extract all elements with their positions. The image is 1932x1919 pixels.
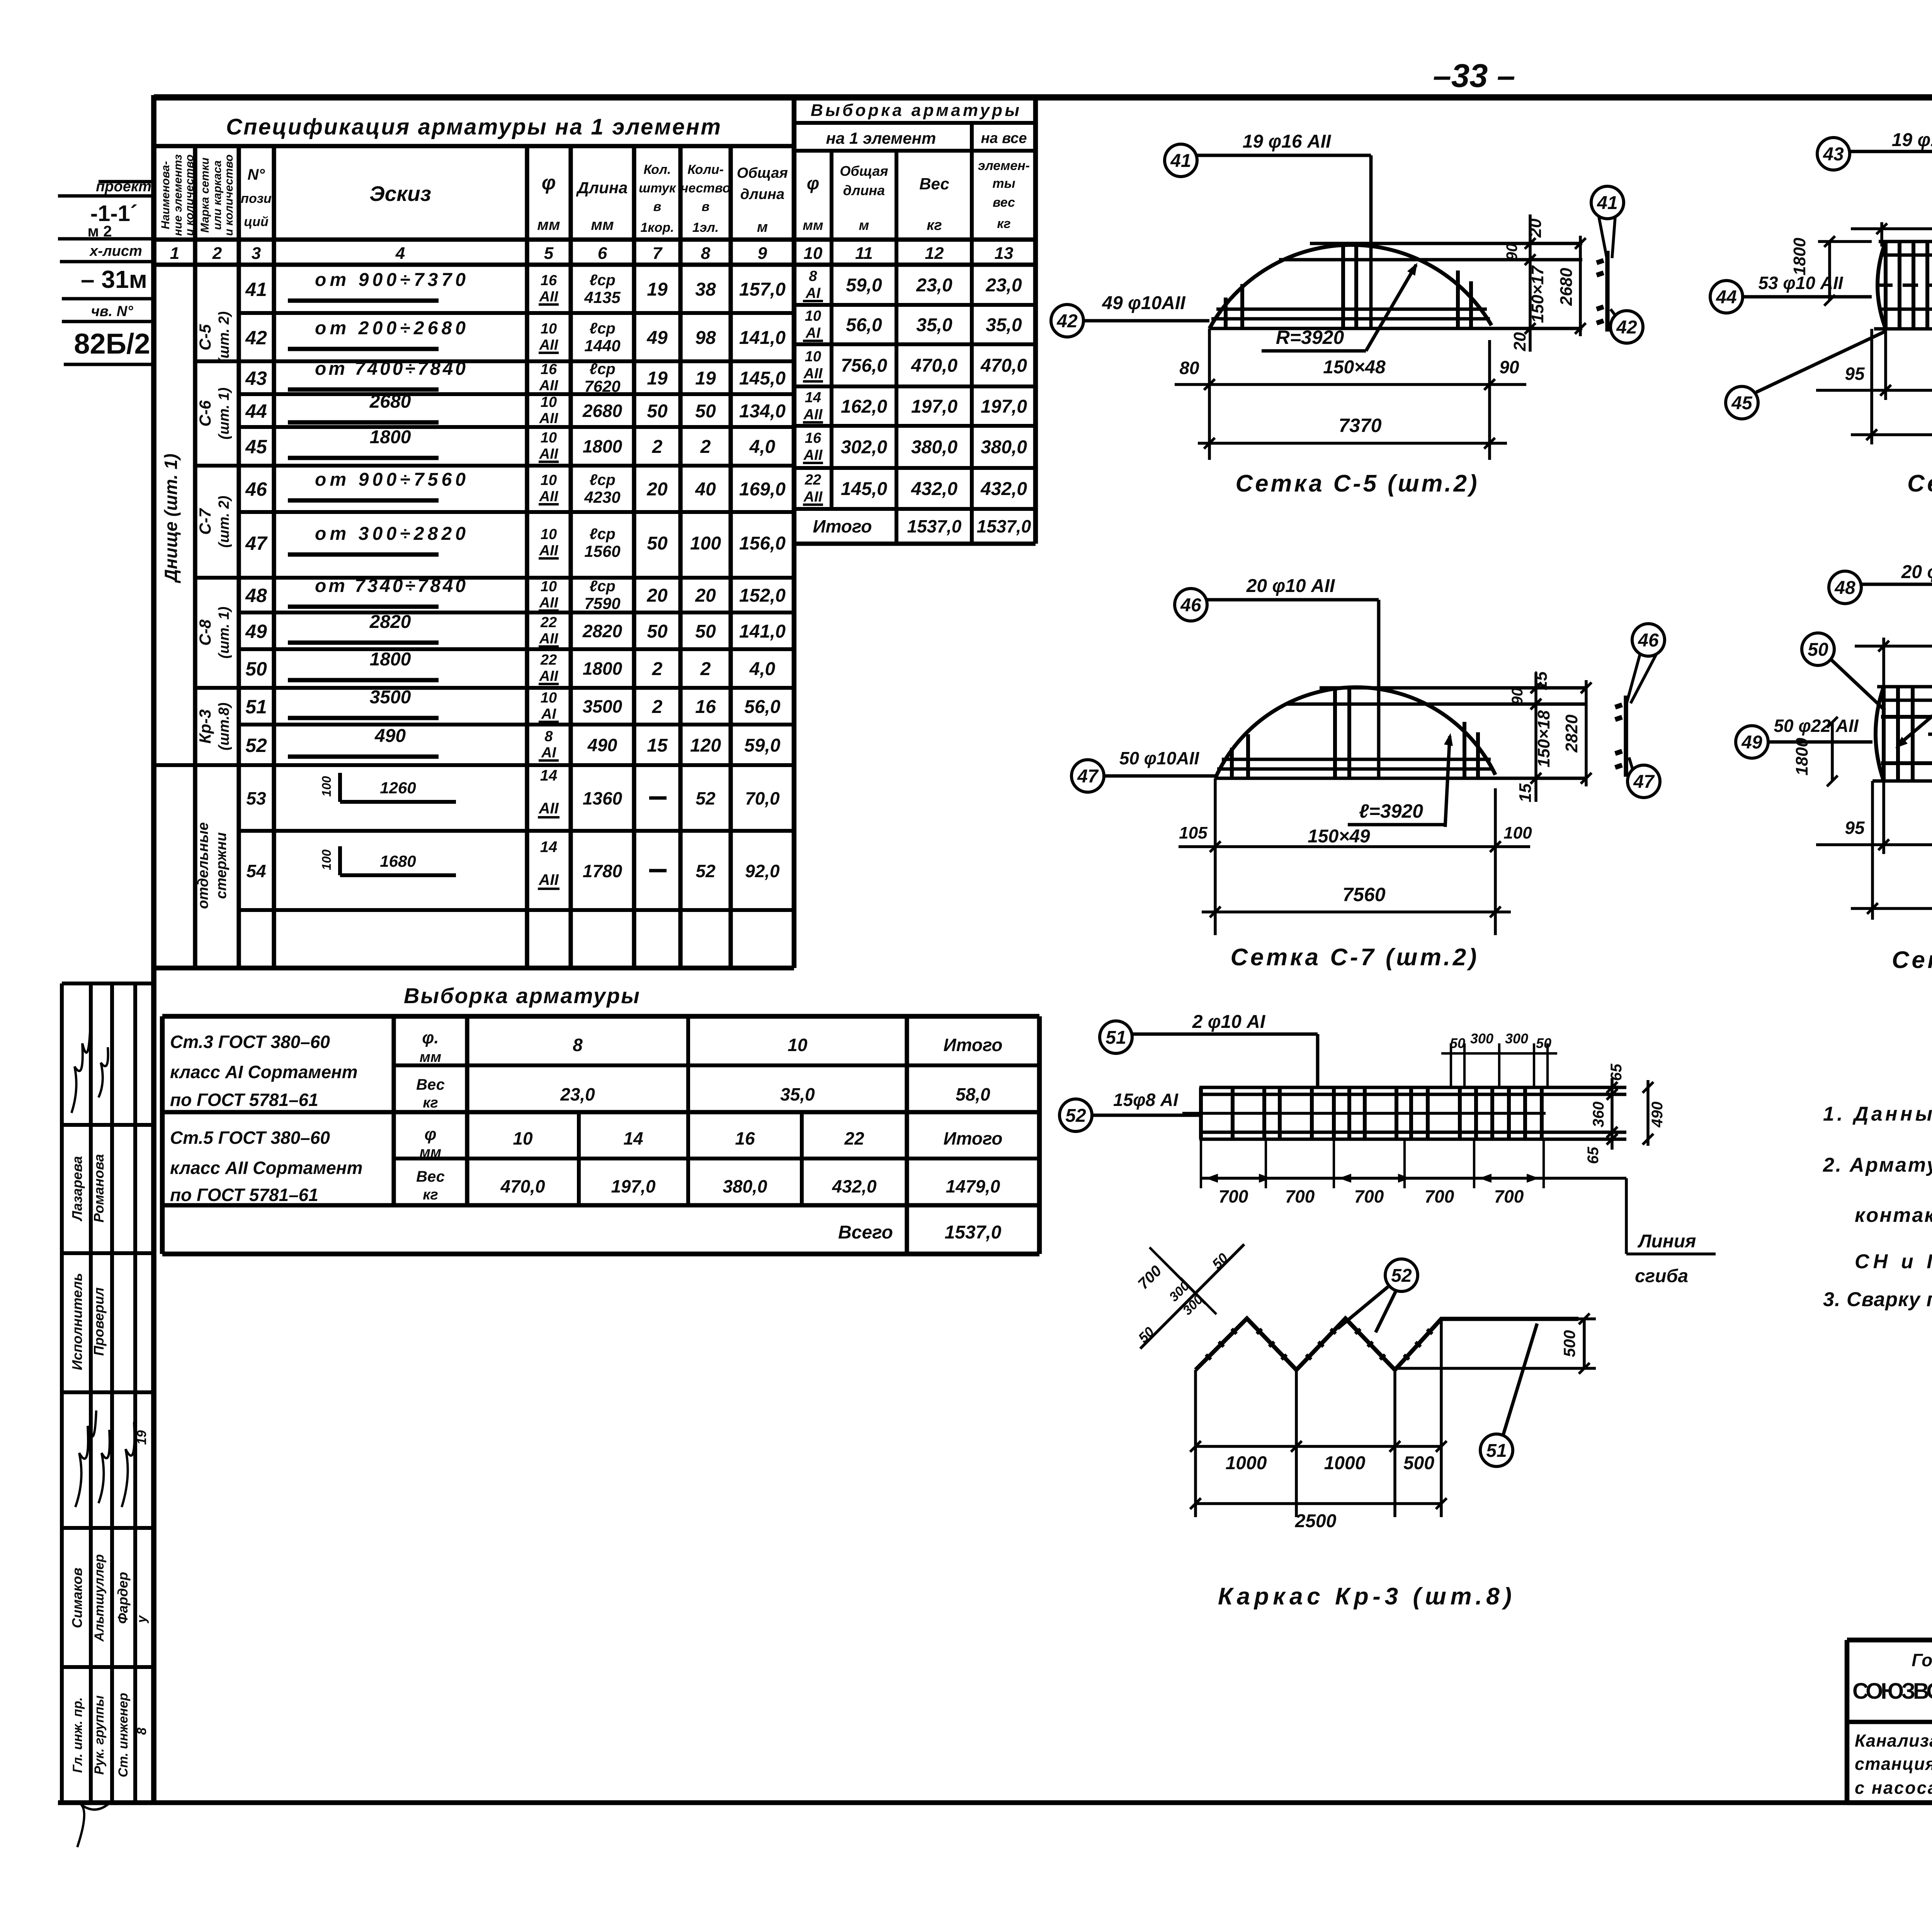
svg-text:7590: 7590 — [584, 594, 620, 612]
svg-text:8: 8 — [701, 244, 711, 263]
svg-text:длина: длина — [740, 186, 784, 202]
svg-text:Романова: Романова — [91, 1154, 107, 1222]
svg-text:380,0: 380,0 — [981, 437, 1027, 458]
svg-text:Днище (шт. 1): Днище (шт. 1) — [161, 454, 181, 584]
C-7 bottom horizontal bars — [1222, 758, 1491, 761]
svg-text:19 φ16 АII: 19 φ16 АII — [1892, 130, 1932, 150]
C-7 callout 47 leader — [1071, 760, 1104, 792]
svg-text:152,0: 152,0 — [739, 585, 786, 606]
svg-text:1479,0: 1479,0 — [946, 1176, 1000, 1196]
svg-text:АII: АII — [803, 447, 823, 463]
svg-text:43: 43 — [1823, 144, 1844, 165]
svg-text:45: 45 — [1731, 393, 1753, 413]
svg-text:R=3920: R=3920 — [1276, 327, 1344, 348]
svg-text:52: 52 — [696, 788, 716, 808]
svg-text:кг: кг — [423, 1095, 438, 1111]
svg-text:С-6: С-6 — [196, 400, 214, 427]
C-7 dimension 7560 — [1202, 910, 1511, 914]
svg-text:15: 15 — [1516, 783, 1535, 802]
svg-text:Спецификация арматуры на 1 э: Спецификация арматуры на 1 элемент — [226, 114, 721, 140]
Kr-3 liniya sgiba leader — [1625, 1178, 1628, 1254]
svg-text:48: 48 — [245, 585, 267, 606]
svg-text:470,0: 470,0 — [911, 356, 957, 376]
svg-text:ℓср: ℓср — [589, 526, 615, 543]
svg-text:1000: 1000 — [1324, 1453, 1366, 1473]
svg-text:АI: АI — [805, 285, 821, 301]
upper-left stamp fragment — [99, 180, 154, 184]
C-7 right dimension chain — [1534, 672, 1537, 802]
svg-text:13: 13 — [995, 244, 1014, 263]
C-8 callout 49 leader — [1736, 726, 1768, 758]
svg-text:432,0: 432,0 — [911, 479, 957, 499]
C-6 callout 45 bottom — [1726, 386, 1758, 419]
svg-text:7: 7 — [653, 244, 663, 263]
svg-text:2: 2 — [652, 659, 663, 679]
svg-text:АI: АI — [541, 706, 556, 722]
svg-text:в: в — [653, 199, 662, 214]
C-5 vertical bars middle cluster — [1341, 244, 1345, 328]
svg-text:20: 20 — [646, 479, 668, 500]
svg-text:Марка сетки: Марка сетки — [199, 158, 211, 233]
svg-text:ℓср: ℓср — [589, 471, 615, 488]
svg-text:АII: АII — [803, 407, 823, 423]
svg-text:141,0: 141,0 — [739, 328, 786, 348]
svg-text:10: 10 — [787, 1035, 808, 1055]
svg-text:Альтшуллер: Альтшуллер — [92, 1554, 107, 1642]
svg-text:Эскиз: Эскиз — [369, 182, 431, 206]
svg-text:380,0: 380,0 — [723, 1176, 767, 1196]
svg-text:90: 90 — [1503, 243, 1520, 261]
svg-text:56,0: 56,0 — [744, 697, 781, 717]
C-6 dimension 7840 — [1851, 433, 1932, 436]
Kr-3 strip horizontal rails — [1199, 1086, 1626, 1089]
svg-text:2680: 2680 — [582, 401, 622, 421]
svg-text:16: 16 — [805, 430, 821, 446]
svg-text:82Б/2: 82Б/2 — [74, 328, 150, 360]
svg-text:1560: 1560 — [584, 542, 620, 560]
svg-text:19: 19 — [647, 368, 668, 389]
Kr-3 zigzag callout 51 — [1480, 1434, 1513, 1466]
svg-text:(шт.8): (шт.8) — [216, 703, 232, 750]
svg-text:Вес: Вес — [919, 175, 949, 193]
svg-text:1. Данный лист смотрите совме: 1. Данный лист смотрите совместно с лист… — [1823, 1103, 1932, 1125]
svg-text:1780: 1780 — [583, 861, 622, 881]
C-5 bottom horizontal bars — [1216, 308, 1487, 311]
title block frame — [1847, 1638, 1932, 1643]
C-5 edge view detail — [1605, 251, 1609, 332]
svg-text:162,0: 162,0 — [841, 396, 887, 417]
svg-text:14: 14 — [805, 390, 821, 406]
svg-text:3500: 3500 — [583, 696, 622, 716]
svg-text:Итого: Итого — [944, 1128, 1003, 1148]
svg-text:52: 52 — [245, 735, 267, 756]
svg-text:Итого: Итого — [813, 516, 872, 536]
C-8 callout 48 leader — [1829, 571, 1861, 604]
svg-text:кг: кг — [423, 1187, 438, 1203]
svg-text:СОЮЗВОДОКАНАЛПРОЕКТ: СОЮЗВОДОКАНАЛПРОЕКТ — [1852, 1679, 1932, 1704]
svg-text:Длина: Длина — [576, 179, 628, 197]
C-8 left dimension 1800 — [1831, 722, 1834, 781]
svg-text:у: у — [134, 1614, 149, 1623]
svg-text:АII: АII — [539, 543, 559, 559]
C-8 callout 50 left — [1802, 633, 1834, 665]
svg-text:–33 –: –33 – — [1433, 58, 1515, 94]
svg-text:15φ8 АI: 15φ8 АI — [1113, 1090, 1179, 1110]
svg-text:59,0: 59,0 — [744, 735, 781, 756]
svg-text:7560: 7560 — [1342, 884, 1385, 905]
svg-text:Проверил: Проверил — [91, 1287, 107, 1356]
C-5 right dimension chain — [1529, 214, 1532, 352]
Kr-3 zigzag polyline — [1196, 1318, 1578, 1370]
Kr-3 zigzag bottom dims 1000 1000 500 2500 — [1196, 1445, 1441, 1448]
svg-text:2500: 2500 — [1295, 1511, 1337, 1531]
svg-text:АI: АI — [541, 745, 556, 761]
svg-text:16: 16 — [695, 697, 716, 717]
svg-text:и количество: и количество — [183, 155, 196, 236]
svg-text:35,0: 35,0 — [986, 315, 1022, 335]
svg-text:3: 3 — [252, 244, 261, 263]
svg-text:3500: 3500 — [370, 687, 411, 708]
svg-text:АII: АII — [539, 446, 559, 462]
svg-text:150×18: 150×18 — [1534, 710, 1553, 767]
svg-text:700: 700 — [1219, 1186, 1248, 1206]
svg-text:2820: 2820 — [1562, 715, 1581, 753]
C-7 bottom dimension line 105 150x49 100 — [1214, 778, 1217, 935]
svg-text:1800: 1800 — [370, 427, 411, 447]
svg-text:С-5: С-5 — [196, 324, 214, 350]
svg-text:44: 44 — [1716, 287, 1736, 308]
svg-text:9: 9 — [758, 244, 767, 263]
svg-text:φ: φ — [542, 172, 556, 194]
svg-text:20: 20 — [646, 585, 668, 606]
signature squiggle below bottom line — [77, 1801, 112, 1847]
svg-text:мм: мм — [591, 216, 614, 233]
svg-text:-1-1´: -1-1´ — [90, 201, 138, 226]
svg-text:станция на 2 агрегата: станция на 2 агрегата — [1855, 1754, 1932, 1774]
svg-text:50: 50 — [695, 401, 716, 422]
svg-text:50: 50 — [647, 533, 668, 554]
svg-text:или каркаса: или каркаса — [211, 160, 224, 230]
svg-text:105: 105 — [1179, 823, 1207, 842]
svg-text:20: 20 — [695, 585, 716, 606]
svg-text:по ГОСТ 5781–61: по ГОСТ 5781–61 — [170, 1185, 318, 1205]
svg-text:Канализационная насосная: Канализационная насосная — [1855, 1731, 1932, 1751]
C-5 top horizontal bars / extension lines — [1310, 242, 1582, 245]
svg-text:23,0: 23,0 — [916, 275, 952, 296]
svg-text:ций: ций — [244, 214, 269, 229]
svg-text:10: 10 — [513, 1128, 533, 1148]
svg-text:47: 47 — [245, 532, 268, 554]
svg-text:48: 48 — [1834, 578, 1855, 598]
svg-text:50: 50 — [647, 401, 668, 422]
svg-text:300: 300 — [1470, 1031, 1493, 1046]
C-5 vertical bars right cluster — [1456, 270, 1460, 328]
svg-text:ℓ=3920: ℓ=3920 — [1359, 800, 1423, 822]
svg-text:16: 16 — [541, 272, 557, 289]
svg-text:432,0: 432,0 — [980, 479, 1027, 499]
svg-text:чество: чество — [681, 181, 731, 196]
svg-text:51: 51 — [1486, 1441, 1507, 1461]
svg-text:8: 8 — [134, 1727, 149, 1735]
svg-text:длина: длина — [843, 182, 885, 198]
svg-text:1эл.: 1эл. — [692, 220, 719, 235]
row53 sketch bent bar 100x1260 — [338, 773, 342, 802]
C-8 vertical bars left cluster — [1882, 687, 1886, 781]
svg-text:φ: φ — [807, 173, 819, 193]
svg-text:Лазарева: Лазарева — [69, 1156, 85, 1222]
svg-text:С-8: С-8 — [196, 619, 214, 646]
svg-text:АII: АII — [803, 489, 823, 505]
svg-text:по ГОСТ 5781–61: по ГОСТ 5781–61 — [170, 1090, 318, 1110]
svg-text:Рук. группы: Рук. группы — [92, 1695, 107, 1774]
svg-text:14: 14 — [540, 767, 558, 784]
strip signatures mid band — [75, 1410, 96, 1507]
svg-text:65: 65 — [1608, 1063, 1625, 1081]
svg-text:43: 43 — [245, 367, 267, 389]
row54 sketch bent bar 100x1680 — [338, 846, 342, 875]
Kr-3 zigzag right vertical dim 500 — [1583, 1319, 1586, 1368]
specification table: Spetsifikatsiya armatury na 1 element — [193, 146, 197, 968]
C-7 vertical bars left cluster — [1230, 748, 1234, 778]
svg-text:56,0: 56,0 — [846, 315, 882, 335]
svg-text:Сетка С-6 (шт.1): Сетка С-6 (шт.1) — [1907, 470, 1932, 497]
C-5 callout 42 leader — [1051, 305, 1083, 337]
svg-text:22: 22 — [804, 472, 821, 488]
svg-text:Каркас Кр-3 (шт.8): Каркас Кр-3 (шт.8) — [1218, 1583, 1512, 1610]
svg-text:500: 500 — [1560, 1330, 1578, 1357]
svg-text:АII: АII — [539, 410, 559, 427]
C-5 arc outline — [1209, 245, 1492, 328]
svg-text:52: 52 — [1065, 1106, 1086, 1126]
svg-text:54: 54 — [246, 861, 266, 881]
svg-text:АII: АII — [539, 289, 559, 305]
svg-text:197,0: 197,0 — [611, 1176, 656, 1196]
svg-text:120: 120 — [690, 735, 721, 756]
svg-text:100: 100 — [1503, 823, 1532, 842]
svg-text:134,0: 134,0 — [739, 401, 786, 422]
svg-text:6: 6 — [598, 244, 607, 263]
svg-text:2: 2 — [700, 437, 711, 457]
C-7 edge view detail — [1624, 696, 1628, 777]
C-7 vertical bars middle cluster — [1333, 689, 1337, 778]
svg-text:95: 95 — [1845, 364, 1865, 384]
svg-text:8: 8 — [544, 728, 553, 745]
C-6 callout 43 — [1817, 138, 1850, 170]
svg-text:1800: 1800 — [370, 649, 411, 670]
svg-text:класс АI Сортамент: класс АI Сортамент — [170, 1062, 358, 1082]
svg-text:ты: ты — [992, 176, 1015, 191]
svg-text:10: 10 — [541, 578, 557, 595]
svg-text:10: 10 — [541, 394, 557, 410]
svg-text:элемен-: элемен- — [978, 158, 1030, 173]
svg-text:80: 80 — [1179, 358, 1199, 378]
svg-text:150×48: 150×48 — [1323, 357, 1386, 378]
svg-text:2820: 2820 — [369, 612, 411, 632]
svg-text:4,0: 4,0 — [749, 437, 776, 457]
svg-text:100: 100 — [320, 849, 333, 870]
svg-text:сгиба: сгиба — [1635, 1266, 1688, 1286]
svg-text:40: 40 — [695, 479, 716, 500]
Kr-3 zigzag left extension and diagonal dims — [1194, 1370, 1197, 1517]
svg-text:1800: 1800 — [1793, 738, 1811, 776]
svg-text:2 φ10 АI: 2 φ10 АI — [1192, 1012, 1266, 1032]
svg-text:22: 22 — [844, 1128, 864, 1148]
svg-text:65: 65 — [1585, 1147, 1602, 1164]
svg-text:49: 49 — [1741, 732, 1762, 753]
svg-text:7620: 7620 — [584, 377, 620, 395]
svg-text:СН и ПII–В1–62 (п.п. 12.35; 1: СН и ПII–В1–62 (п.п. 12.35; 12,36). — [1855, 1250, 1932, 1273]
svg-text:7370: 7370 — [1338, 415, 1381, 436]
svg-text:(шт. 1): (шт. 1) — [216, 388, 232, 440]
svg-text:чв. N°: чв. N° — [91, 303, 134, 320]
svg-text:4: 4 — [395, 244, 405, 263]
svg-text:100: 100 — [320, 776, 333, 797]
svg-text:50: 50 — [245, 658, 267, 680]
svg-text:45: 45 — [245, 436, 267, 458]
bottom border line — [58, 1800, 1932, 1805]
svg-text:1537,0: 1537,0 — [907, 516, 962, 536]
svg-text:19: 19 — [647, 279, 668, 300]
svg-text:700: 700 — [1425, 1186, 1454, 1206]
svg-text:Кол.: Кол. — [644, 162, 671, 177]
svg-text:145,0: 145,0 — [841, 479, 887, 499]
svg-text:10: 10 — [541, 430, 557, 446]
svg-text:5: 5 — [544, 244, 554, 263]
Kr-3 right dimension chain 65 360 65 490 — [1611, 1078, 1614, 1150]
svg-text:отдельные: отдельные — [195, 822, 211, 909]
svg-text:Общая: Общая — [737, 165, 788, 181]
svg-text:3. Сварку производить электро: 3. Сварку производить электродами Э-42 Г… — [1823, 1288, 1932, 1311]
svg-text:157,0: 157,0 — [739, 279, 786, 300]
svg-text:50: 50 — [695, 621, 716, 642]
svg-text:Симаков: Симаков — [69, 1568, 85, 1628]
svg-text:14: 14 — [540, 839, 558, 856]
svg-text:2680: 2680 — [1557, 268, 1576, 306]
svg-text:16: 16 — [541, 361, 557, 378]
vyborka armatury mini table — [794, 121, 1036, 125]
top border line — [154, 94, 1932, 100]
svg-text:150×49: 150×49 — [1308, 826, 1370, 847]
C-6 vertical bars left cluster — [1884, 242, 1888, 329]
C-6 top dimension 7400 — [1851, 227, 1932, 230]
svg-text:47: 47 — [1077, 766, 1099, 787]
Kr-3 bottom dimension chain 700x5 — [1201, 1177, 1626, 1180]
svg-text:19: 19 — [134, 1430, 149, 1445]
svg-text:10: 10 — [541, 321, 557, 337]
svg-text:44: 44 — [245, 400, 267, 422]
svg-text:1360: 1360 — [583, 788, 622, 808]
svg-text:10: 10 — [541, 472, 557, 488]
svg-text:20: 20 — [1510, 332, 1529, 351]
Kr-3 callout 51 top — [1100, 1021, 1132, 1053]
svg-text:46: 46 — [245, 478, 267, 500]
svg-text:φ.: φ. — [422, 1028, 439, 1047]
svg-text:ℓср: ℓср — [589, 578, 615, 595]
svg-text:АII: АII — [539, 595, 559, 611]
C-7 top horizontal bars — [1320, 686, 1586, 690]
svg-text:10: 10 — [541, 526, 557, 543]
svg-text:150×17: 150×17 — [1528, 265, 1547, 323]
svg-text:Вес: Вес — [416, 1168, 445, 1185]
C-5 dimension 7370 — [1198, 442, 1507, 445]
svg-text:90: 90 — [1499, 357, 1519, 377]
svg-text:вес: вес — [993, 195, 1015, 210]
svg-text:8: 8 — [809, 268, 817, 284]
svg-text:302,0: 302,0 — [841, 437, 887, 458]
svg-text:Сетка С-5 (шт.2): Сетка С-5 (шт.2) — [1236, 470, 1477, 497]
C-7 callout 46 leader — [1175, 589, 1207, 621]
svg-text:500: 500 — [1403, 1453, 1434, 1473]
svg-text:156,0: 156,0 — [739, 533, 786, 554]
svg-text:1800: 1800 — [583, 436, 622, 456]
C-7 vertical bars right cluster — [1463, 722, 1466, 778]
svg-text:2: 2 — [212, 244, 222, 263]
svg-text:23,0: 23,0 — [985, 275, 1022, 296]
svg-text:(шт. 1): (шт. 1) — [216, 607, 232, 659]
svg-text:50: 50 — [1536, 1035, 1551, 1051]
svg-text:ℓср: ℓср — [589, 272, 615, 289]
svg-text:47: 47 — [1633, 772, 1655, 792]
svg-text:41: 41 — [1170, 151, 1191, 171]
svg-text:490: 490 — [1649, 1102, 1666, 1128]
svg-text:Коли-: Коли- — [687, 162, 724, 177]
svg-text:4230: 4230 — [584, 488, 620, 506]
strip signatures top band — [71, 1032, 90, 1113]
svg-text:АII: АII — [803, 366, 823, 382]
svg-text:Гл. инж. пр.: Гл. инж. пр. — [70, 1697, 85, 1773]
Kr-3 zigzag callout 52 — [1385, 1259, 1418, 1291]
svg-text:52: 52 — [1391, 1266, 1412, 1286]
svg-text:41: 41 — [245, 279, 267, 300]
svg-text:Вес: Вес — [416, 1076, 445, 1093]
svg-text:53: 53 — [246, 788, 266, 808]
C-6 left dimension 1800 — [1828, 242, 1831, 300]
svg-text:(шт. 2): (шт. 2) — [216, 496, 232, 548]
svg-text:Ст.5 ГОСТ 380–60: Ст.5 ГОСТ 380–60 — [170, 1128, 330, 1148]
svg-text:470,0: 470,0 — [980, 356, 1027, 376]
svg-text:м: м — [859, 217, 869, 233]
svg-text:10: 10 — [541, 690, 557, 706]
svg-text:42: 42 — [1616, 317, 1637, 338]
svg-text:Кр-3: Кр-3 — [196, 709, 214, 744]
svg-text:98: 98 — [695, 328, 716, 348]
svg-text:от 300÷2820: от 300÷2820 — [315, 524, 466, 544]
svg-text:20 φ10 АII: 20 φ10 АII — [1246, 576, 1335, 596]
svg-text:35,0: 35,0 — [780, 1084, 815, 1104]
svg-text:12: 12 — [925, 244, 944, 263]
svg-text:22: 22 — [540, 652, 557, 668]
svg-text:Итого: Итого — [944, 1035, 1003, 1055]
C-6 horizontal bars — [1879, 240, 1932, 243]
svg-text:360: 360 — [1590, 1102, 1607, 1128]
C-8 bottom dimension 95 150x51 95 — [1816, 843, 1932, 846]
svg-text:20: 20 — [1526, 218, 1545, 238]
svg-text:92,0: 92,0 — [745, 861, 780, 881]
Kr-3 strip cross bars — [1199, 1087, 1203, 1139]
svg-text:Сетка С-7 (шт.2): Сетка С-7 (шт.2) — [1231, 944, 1477, 971]
svg-text:10: 10 — [804, 244, 823, 263]
svg-text:35,0: 35,0 — [916, 315, 952, 335]
svg-text:50 φ22 АII: 50 φ22 АII — [1774, 716, 1859, 736]
svg-text:АI: АI — [805, 325, 821, 341]
Kr-3 zigzag weld ticks — [1206, 1354, 1211, 1359]
svg-text:Госстрой СССР: Госстрой СССР — [1912, 1650, 1932, 1670]
svg-text:50 φ10АII: 50 φ10АII — [1119, 748, 1199, 768]
svg-text:АII: АII — [539, 668, 559, 684]
svg-text:11: 11 — [855, 244, 873, 263]
svg-text:АII: АII — [538, 871, 559, 888]
svg-text:1000: 1000 — [1226, 1453, 1267, 1473]
